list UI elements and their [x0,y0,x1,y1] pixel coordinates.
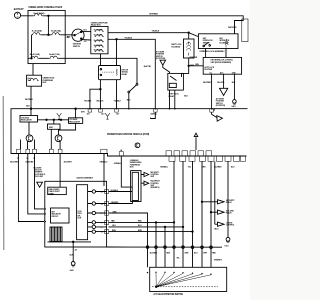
svg-text:No.25 7.5A: No.25 7.5A [94,49,103,52]
wire bus to box2 [75,109,77,118]
A/T gear position switch box [150,267,227,291]
ignition switch SW1 [72,29,84,41]
off-page arrow glyph mid [105,113,110,119]
wire BRN row to bundle [109,231,193,233]
buzzer hatched component [50,227,62,242]
battery B1 [14,12,20,18]
stub gauge corner v1 [109,213,148,267]
wire under-hood bottom to fuse box F2 [32,64,34,76]
svg-text:BLK/YEL: BLK/YEL [217,82,225,84]
wire fuse row1 to right [43,15,65,17]
fuse row3 right [49,56,59,58]
wire junction to key interlock control unit [189,65,204,67]
off-page arrow A2 [218,210,225,214]
wire A junction to solenoid [188,33,190,39]
L-hook below bus [151,112,156,118]
wire solenoid bottom [182,58,189,73]
svg-text:CONTROL: CONTROL [226,225,235,227]
connector rail line [107,246,222,248]
svg-text:REGULATOR: REGULATOR [69,120,80,123]
wire B branch to relay box RB [116,39,118,65]
svg-text:(POSITION): (POSITION) [216,105,226,107]
svg-text:SWITCH: SWITCH [73,46,81,48]
rotary switch fan [156,273,211,287]
wire PCM left pin C down [35,154,45,209]
PCM right pin boxes above edge [166,151,212,156]
PCM box outline [11,109,248,156]
svg-text:IG1: IG1 [84,41,87,43]
gauge pin circles and stubs [88,190,107,234]
PCM top pin boxes [88,109,213,112]
gauge right edge pin boxes [105,189,109,233]
svg-text:(DRIVER'S): (DRIVER'S) [150,187,159,189]
wire feed1 to warning box [59,181,61,187]
wires Q legs to pins [21,140,61,150]
off-page arrow glyph left [57,113,62,119]
ground G101 [226,237,230,242]
wire battery to under-hood box [21,15,28,17]
svg-text:A13: A13 [101,113,104,116]
relay box RB [99,66,121,80]
svg-text:RED/BLU: RED/BLU [160,167,168,169]
svg-text:RELAY: RELAY [169,95,175,98]
wire gauge to ground [72,242,74,262]
gauge key indicator box [51,208,70,223]
fuse row3 left [30,56,40,58]
key interlock control unit U4 [203,57,241,74]
fuse No.41 [33,14,43,16]
off-page arrow A3 [218,222,225,226]
svg-text:G401: G401 [231,105,235,108]
svg-text:No.23 7.5A: No.23 7.5A [94,44,103,47]
fuse D5 [95,50,104,52]
stub gauge to relay box [109,191,133,193]
transistor Q1 [26,135,33,142]
wire U4 ILL down to bus [211,74,213,109]
svg-text:No.17 7.5A: No.17 7.5A [94,39,103,42]
bundle wire v5 from PCM [182,161,184,267]
svg-text:14: 14 [17,157,19,160]
wire PCM left pin B down [28,154,44,214]
hook arrow below bus right [212,112,223,121]
wire row3 exit to key switch feed [65,58,137,83]
svg-text:GAUGE ASSEMBLY: GAUGE ASSEMBLY [76,177,94,180]
svg-text:(POSITION): (POSITION) [156,58,166,60]
transistor Q2 [55,135,62,142]
svg-text:PANEL: PANEL [49,192,56,195]
wire row3 [28,57,65,59]
wire to ground G101 [227,161,229,237]
svg-text:No.46 (7.5A): No.46 (7.5A) [49,53,60,56]
connector triangle T4 [37,182,43,187]
svg-text:BLU/GRN: BLU/GRN [26,161,34,163]
wire A under-dash to steering lock (YEL/BLK) [108,33,198,37]
svg-text:10: 10 [26,158,28,160]
bundle wire v3 [164,227,166,267]
fuse box No.2 [27,75,42,86]
wire box2 to Q2 [59,123,76,134]
PCM right pin boxes below edge [169,156,246,161]
svg-text:B8: B8 [67,37,69,39]
connector triangle T2 [220,88,228,95]
ground G401 right [233,100,237,105]
svg-text:POWERTRAIN CONTROL MODULE (PCM: POWERTRAIN CONTROL MODULE (PCM) [107,133,149,136]
fuse D3 [95,40,104,42]
wire S2 to bus [128,93,130,109]
bus junction dots [89,108,212,110]
wire ACC ignition to under-dash box [82,31,91,33]
svg-text:YEL/BLK: YEL/BLK [96,100,104,102]
svg-text:BLU/BLK: BLU/BLK [150,253,158,255]
wire PCM pin to gauge feed 2 [103,154,105,187]
off-page arrow A1 [218,200,225,204]
svg-text:1 BLU: 1 BLU [214,229,220,231]
ground G401 [71,262,75,267]
svg-text:GRN/BLU: GRN/BLU [114,163,122,165]
fuse row2 left [32,33,42,35]
svg-text:21: 21 [101,192,103,194]
under-hood fuse/relay box [28,10,65,63]
svg-text:No.13 7.5A: No.13 7.5A [94,34,103,37]
svg-text:UNIT (KEY-IN REMINDER): UNIT (KEY-IN REMINDER) [211,62,232,64]
arrow branch 3 [214,162,216,225]
wire IG1 ignition to under-dash box [82,39,91,41]
wire under-dash bottom to relay box RB [100,54,102,66]
NSR box [48,124,61,129]
svg-text:WHT/BLK: WHT/BLK [25,99,34,101]
bundle wire v6 from PCM [192,161,194,267]
svg-text:No.43 (10A): No.43 (10A) [30,53,40,56]
svg-text:SWITCH: SWITCH [203,42,210,44]
PCM glyph small arrow [194,133,198,150]
entry arrowheads gauge left [44,208,46,223]
wire steering lock pin1 down [205,49,207,58]
svg-text:GRN/BLU: GRN/BLU [100,162,108,164]
wire link to NSR [53,120,55,124]
svg-text:YEL/BLK: YEL/BLK [152,31,160,33]
svg-text:YEL/BLK: YEL/BLK [84,100,92,102]
fuse D1 [95,29,104,31]
fuse D4 [95,45,104,47]
svg-text:SOLENOID: SOLENOID [171,46,181,48]
svg-text:YEL/BLK: YEL/BLK [124,37,132,39]
PCM tiny transistor glyph [135,143,140,148]
svg-text:CIRCUIT: CIRCUIT [51,216,59,218]
gauge control circuit tall box [77,185,88,240]
svg-text:UNDER-HOOD FUSE/RELAY BOX: UNDER-HOOD FUSE/RELAY BOX [29,6,63,9]
svg-text:WHT/RED: WHT/RED [228,27,237,29]
svg-text:WHT/RED: WHT/RED [149,14,158,16]
svg-text:REGULATOR: REGULATOR [21,119,32,122]
bundle wire v4 from PCM [173,161,175,267]
bundle wire v2 [155,222,157,267]
svg-text:YEL/BLK: YEL/BLK [114,100,122,102]
wire T1 to shift lock relay [163,65,170,73]
gauge assembly box [45,181,107,247]
steering lock assembly box [198,34,238,49]
wire row1-row2 vertical [47,16,49,35]
relay module arrow 1 [141,172,149,176]
svg-text:A17: A17 [116,113,119,116]
svg-text:PLEX UNIT: PLEX UNIT [34,176,44,178]
svg-text:WHT/RED: WHT/RED [203,82,212,84]
svg-text:BLU/BLK: BLU/BLK [111,190,119,192]
switch wiper dashed [152,286,218,288]
svg-text:RELAY: RELAY [122,73,128,76]
wire box1-box2 link [38,119,69,121]
shift lock relay U3 [168,73,184,90]
svg-text:A11: A11 [87,113,90,116]
wire U4 ACC down to triangle T2 [223,74,225,88]
svg-text:5: 5 [101,227,102,229]
PCM internal regulator box 2 [69,118,83,124]
svg-text:RELAY: RELAY [226,212,232,215]
svg-text:No.44 (15A): No.44 (15A) [51,29,61,32]
gauge inner bottom rail [48,241,92,243]
fuse row2 right [51,33,61,35]
gauge inner warning box [48,187,67,194]
connector triangle T1 [160,60,166,65]
wire U4 GND down [233,74,235,99]
svg-text:GRN/WHT: GRN/WHT [214,259,223,261]
svg-text:ROUTINE: ROUTINE [204,69,212,71]
stub gauge to relay box bottom [109,202,133,204]
shift lock solenoid U2 [184,39,195,58]
arrow branch 2 [211,211,218,213]
switch contact dots [147,272,212,275]
wire bus to box1 [30,109,32,116]
svg-text:15: 15 [33,158,35,160]
svg-text:BLU/GRN: BLU/GRN [10,161,18,163]
RB pin1 wire to bus [99,80,101,109]
under-dash fuse/relay box [91,26,108,53]
svg-text:GRN/RED: GRN/RED [189,57,198,59]
svg-text:BLK/YEL: BLK/YEL [144,66,152,68]
under-dash relay module box [131,171,141,202]
main WHT/RED wire top [65,16,243,34]
wire row2-row3 vertical [31,35,33,59]
wire PCM pin to relay module [121,156,132,187]
bundle wire v7 from PCM [201,161,203,267]
PCM internal regulator box 1 [20,116,38,123]
svg-text:BLU/WHT: BLU/WHT [64,161,73,163]
svg-text:G401: G401 [70,269,74,272]
svg-text:No.42 (40A): No.42 (40A) [32,29,42,32]
svg-text:G101: G101 [224,245,228,247]
wire box1 to Q1 [28,122,30,135]
RB jog branch to bus [90,89,101,109]
svg-text:GRN/RED: GRN/RED [111,202,120,204]
relay module arrow 2 [141,181,149,185]
svg-text:No.41 (100A): No.41 (100A) [34,12,45,15]
svg-text:8: 8 [101,213,102,215]
svg-text:16: 16 [101,232,103,234]
key switch S2 blade [128,84,138,93]
wire relay pin2 to bus [174,90,176,109]
wire steering lock pin2 down [225,49,227,58]
svg-text:1: 1 [101,223,102,225]
wire BLU row to bundle [109,226,184,228]
wire PCM left pin A down [18,154,44,222]
arrow branch 1 [202,201,218,203]
connector circles on rail [146,246,212,249]
svg-text:BLU/RED: BLU/RED [214,167,222,169]
wire NSR down [50,129,52,149]
wire fuse box to PCM bus [30,86,32,109]
bundle wire v8 from PCM [210,161,212,267]
PCM left pin boxes [17,149,124,156]
wire row2 to ignition BAT [72,34,74,36]
svg-text:STEERING LOCK ASSEMBLY: STEERING LOCK ASSEMBLY [199,50,225,53]
wire RED row to bundle [109,221,175,223]
RB pin2 wire to bus [116,80,118,109]
svg-text:SOLENOID: SOLENOID [219,42,229,44]
inner relay box [132,172,138,200]
scan edge artifact [2,96,5,250]
edge connector bracket [242,19,248,42]
svg-text:RELAY: RELAY [226,201,232,204]
wire B under-dash to PCM (YEL/BLK) [108,39,155,108]
wire PCM pin to gauge feed 1 [59,154,61,182]
svg-text:BATTERY: BATTERY [14,8,24,11]
svg-text:RELAY BOX: RELAY BOX [91,24,102,27]
svg-text:No.15 7.5A: No.15 7.5A [94,28,103,31]
svg-text:A/T GEAR POSITION SWITCH: A/T GEAR POSITION SWITCH [153,293,183,296]
fuse D2 [95,35,104,37]
wire row2 [41,34,72,36]
wire relay pin to bus [169,90,171,109]
svg-text:B4 BLU: B4 BLU [151,113,158,116]
